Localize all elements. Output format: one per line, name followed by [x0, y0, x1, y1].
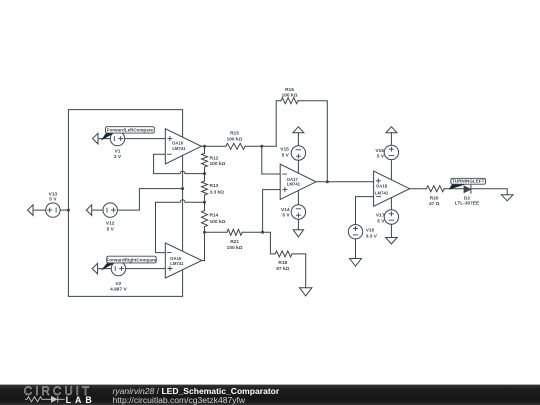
svg-text:LM741: LM741 — [375, 191, 389, 196]
svg-text:R12: R12 — [210, 155, 219, 161]
svg-text:5 V: 5 V — [282, 213, 290, 219]
svg-text:LTL-307EE: LTL-307EE — [455, 201, 480, 207]
svg-text:ForwardLeftCompare: ForwardLeftCompare — [107, 128, 154, 133]
svg-text:V13: V13 — [49, 192, 58, 198]
svg-text:R18: R18 — [278, 260, 287, 266]
svg-text:V10: V10 — [366, 227, 375, 233]
svg-text:LM741: LM741 — [170, 261, 184, 266]
svg-text:V14: V14 — [281, 207, 290, 213]
svg-text:R20: R20 — [430, 196, 439, 202]
svg-text:LM741: LM741 — [172, 146, 186, 151]
svg-text:R14: R14 — [210, 213, 219, 219]
svg-text:100 kΩ: 100 kΩ — [227, 136, 243, 142]
svg-text:R15: R15 — [230, 130, 239, 136]
svg-text:3.3 V: 3.3 V — [366, 233, 378, 239]
svg-text:5 V: 5 V — [282, 153, 290, 159]
svg-text:OA18: OA18 — [376, 183, 388, 188]
svg-text:ForwardRightCompare: ForwardRightCompare — [107, 257, 157, 262]
svg-text:3.3 kΩ: 3.3 kΩ — [210, 189, 225, 195]
svg-text:TURNINGLEFT: TURNINGLEFT — [452, 179, 485, 184]
svg-text:97 kΩ: 97 kΩ — [276, 266, 289, 272]
svg-text:3 V: 3 V — [114, 154, 122, 160]
svg-text:R16: R16 — [285, 87, 294, 93]
svg-text:100 kΩ: 100 kΩ — [227, 245, 243, 251]
svg-text:47 Ω: 47 Ω — [429, 201, 440, 207]
svg-text:5 V: 5 V — [49, 197, 57, 203]
svg-text:5 V: 5 V — [377, 218, 385, 224]
svg-text:5 V: 5 V — [107, 226, 115, 232]
svg-text:LM741: LM741 — [287, 182, 301, 187]
svg-text:V17: V17 — [376, 213, 385, 219]
svg-text:R21: R21 — [230, 239, 239, 245]
svg-text:V15: V15 — [280, 147, 289, 153]
svg-text:4.987 V: 4.987 V — [110, 287, 127, 293]
svg-text:V16: V16 — [375, 148, 384, 154]
svg-text:V1: V1 — [115, 148, 121, 154]
svg-text:V2: V2 — [115, 281, 121, 287]
svg-text:100 kΩ: 100 kΩ — [210, 161, 226, 167]
svg-text:LAB: LAB — [66, 395, 96, 405]
svg-text:100 kΩ: 100 kΩ — [282, 93, 298, 99]
svg-text:5 V: 5 V — [377, 153, 385, 159]
svg-text:100 kΩ: 100 kΩ — [210, 219, 226, 225]
svg-text:R13: R13 — [210, 183, 219, 189]
svg-text:OA16: OA16 — [172, 140, 184, 145]
svg-text:V12: V12 — [106, 221, 115, 227]
svg-text:D2: D2 — [464, 195, 470, 201]
